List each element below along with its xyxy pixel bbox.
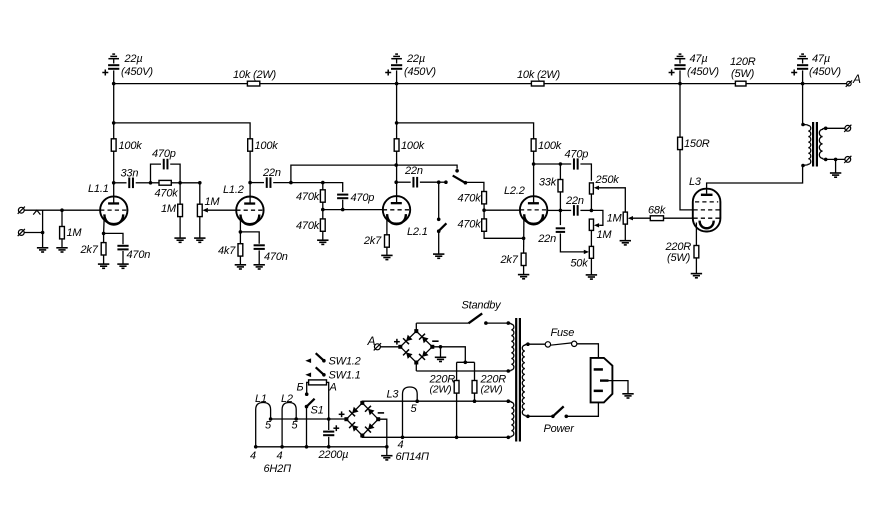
junction 220R tee <box>464 361 468 365</box>
ground 1M feedback <box>620 240 631 242</box>
pentode cathode arc <box>700 221 714 229</box>
capacitor 470p #2 <box>337 194 348 196</box>
svg-text:10k (2W): 10k (2W) <box>517 69 561 81</box>
resistor 4k7 L1.2 <box>238 244 243 256</box>
resistor 470k #2 divider <box>322 210 324 219</box>
junction 33n out <box>149 181 153 185</box>
resistor 100k L2.1 anode <box>394 139 399 151</box>
svg-text:100k: 100k <box>538 140 562 152</box>
junction bus minus <box>385 445 389 449</box>
svg-text:1M: 1M <box>161 203 177 215</box>
svg-text:1M: 1M <box>205 196 221 208</box>
wire power to primary <box>528 415 553 417</box>
junction secondary ground <box>834 158 838 162</box>
transformer PT heater winding <box>508 401 514 437</box>
wire screen sub-rail right <box>396 84 398 139</box>
svg-text:22n: 22n <box>537 233 556 245</box>
pot 50k wiper arrow <box>584 250 589 254</box>
svg-text:(2W): (2W) <box>481 384 503 396</box>
wire bridge1 bottom riser <box>415 363 417 372</box>
capacitor 47u 450V #1 electrolytic <box>675 58 686 60</box>
svg-text:100k: 100k <box>119 140 143 152</box>
switch SW1.1 arrow <box>305 373 311 378</box>
junction pot top <box>198 181 202 185</box>
ground divider <box>317 239 328 241</box>
junction L2.2 anode node <box>532 162 536 166</box>
svg-text:50k: 50k <box>570 258 588 270</box>
transformer PT HV winding <box>508 323 514 371</box>
junction L1.2 cathode <box>239 230 243 234</box>
junction L1.2 anode node <box>248 181 252 185</box>
wire grid right L2.2 <box>547 209 560 211</box>
capacitor 22n coupling L1.2 <box>250 182 264 184</box>
wire minus ground stem <box>440 347 442 357</box>
bridge rectifier B1 <box>400 331 432 362</box>
pot 1M feedback wiper <box>628 216 633 220</box>
svg-text:4: 4 <box>398 439 404 451</box>
svg-text:(5W): (5W) <box>667 252 691 264</box>
junction power pivot <box>551 415 555 419</box>
svg-text:(450V): (450V) <box>121 66 153 78</box>
wire HV bottom <box>416 370 508 372</box>
resistor 470k #1 divider <box>322 183 324 190</box>
capacitor 470p #3 feedback <box>534 163 572 165</box>
ground input <box>37 247 48 249</box>
ground 1M <box>174 237 185 239</box>
switch contact dot lower <box>444 180 448 184</box>
wire to switch contact <box>439 181 446 183</box>
switch SW1.2 arrow <box>305 358 311 363</box>
wire A to bridge1 <box>381 346 401 348</box>
bridge rectifier B2 <box>346 403 378 436</box>
svg-text:L1.1: L1.1 <box>88 183 109 195</box>
pentode grid2 dashes <box>694 209 720 211</box>
wire B+ rail right <box>544 83 735 85</box>
switch top contact <box>455 169 459 173</box>
capacitor 22n #3 <box>560 209 571 211</box>
ground mute <box>433 253 444 255</box>
svg-text:470p: 470p <box>152 148 176 160</box>
wire bridge2 minus to ground <box>378 419 387 447</box>
junction L3 pin4 <box>401 436 405 440</box>
contact S1 lower <box>305 405 309 409</box>
plus bridge1 <box>394 341 400 343</box>
wire S1 to resistor B <box>307 382 309 394</box>
potentiometer 1M mid <box>589 219 593 230</box>
junction subrail right <box>395 121 399 125</box>
tube L2.1 triode <box>383 196 410 223</box>
wire bridge1 minus <box>432 347 465 363</box>
svg-text:L3: L3 <box>387 389 400 401</box>
svg-text:(450V): (450V) <box>687 66 719 78</box>
plug prong middle <box>600 379 609 381</box>
wire plug bottom <box>566 402 598 416</box>
mains plug <box>591 358 613 403</box>
svg-text:250k: 250k <box>595 174 620 186</box>
svg-text:33k: 33k <box>539 177 557 189</box>
terminal A output <box>847 81 852 86</box>
pot 250k wiper <box>594 186 599 190</box>
wire input to grid L1.1 <box>24 209 100 211</box>
contact SW1.1 <box>322 373 326 377</box>
wire to volume pot <box>180 182 200 184</box>
svg-text:1M: 1M <box>607 213 623 225</box>
transformer OT secondary terminals <box>824 127 828 131</box>
transformer OT secondary winding <box>819 128 825 159</box>
resistor 470k #3 <box>482 192 487 204</box>
speaker jack bottom <box>845 157 851 163</box>
svg-text:470p: 470p <box>351 192 375 204</box>
wire L3 anode to OT <box>707 166 803 194</box>
wire fuse lead <box>528 343 545 345</box>
svg-text:Б: Б <box>297 382 304 394</box>
transformer PT core <box>515 318 517 442</box>
wire 4k7 ground <box>239 256 241 265</box>
wire B+ rail <box>114 83 248 85</box>
junction 470k out <box>178 181 182 185</box>
junction rail x113 <box>112 82 116 86</box>
svg-text:(450V): (450V) <box>809 66 841 78</box>
wire 2k7 to ground <box>103 255 105 264</box>
resistor 2k7 L1.1 <box>101 243 106 255</box>
heater coil L2 <box>282 403 296 447</box>
tube L1.2 triode <box>236 197 263 224</box>
junction L1.1 cathode <box>102 232 106 236</box>
wire 220R left down <box>456 393 458 437</box>
capacitor 22n coupling L2.1 <box>396 181 411 183</box>
svg-text:47µ: 47µ <box>812 53 830 65</box>
resistor 2k7 L2.2 <box>521 253 526 265</box>
wire minus bus stub <box>386 447 388 456</box>
transformer OT core <box>812 122 814 167</box>
ground L1.2 cathode <box>235 264 246 266</box>
svg-text:(2W): (2W) <box>430 384 452 396</box>
pot 1M mid wiper <box>591 210 603 225</box>
heater coil L3 <box>403 387 418 437</box>
transformer PT primary winding <box>522 344 528 416</box>
wire 220R right down <box>474 393 476 401</box>
junction rail x802 <box>801 82 805 86</box>
minus bridge2 <box>378 412 384 414</box>
capacitor 33n coupling <box>114 182 127 184</box>
svg-text:6Н2П: 6Н2П <box>264 463 292 475</box>
switch blade upper select <box>453 176 466 184</box>
junction 220R left bottom <box>455 436 459 440</box>
wire blade to divider2 <box>465 182 484 191</box>
potentiometer 1M feedback <box>623 212 627 224</box>
connector break mark <box>33 210 40 214</box>
junction minus gnd stem <box>439 345 443 349</box>
PT HV terminals <box>507 321 511 325</box>
ground L3 cathode <box>691 273 702 275</box>
svg-text:68k: 68k <box>648 205 666 217</box>
resistor 10k (2W) #2 <box>531 81 544 86</box>
ground 470n L1.2 <box>254 264 265 266</box>
svg-text:470n: 470n <box>127 249 151 261</box>
svg-text:470k: 470k <box>296 220 320 232</box>
PT primary terminals <box>526 342 530 346</box>
ground L2.1 cathode <box>381 254 392 256</box>
wire divider corner <box>323 183 343 193</box>
resistor 68k <box>650 216 663 221</box>
contact S1 upper <box>305 392 309 396</box>
junction L1.1 anode node <box>112 181 116 185</box>
transformer OT primary winding <box>803 125 811 166</box>
svg-text:470p: 470p <box>565 149 589 161</box>
svg-text:(450V): (450V) <box>404 66 436 78</box>
svg-text:4: 4 <box>250 450 256 462</box>
svg-text:4k7: 4k7 <box>218 245 236 257</box>
junction link at L2.1 anode <box>394 163 398 167</box>
junction L2.2 cathode <box>522 237 526 241</box>
svg-text:150R: 150R <box>684 138 710 150</box>
tube L1.1 triode <box>100 196 127 223</box>
resistor 100k L1.2 anode <box>248 139 253 151</box>
potentiometer 50k <box>589 246 593 258</box>
contact standby <box>484 321 488 325</box>
ground 50k <box>586 274 597 276</box>
capacitor 47u 450V #2 electrolytic <box>797 58 808 60</box>
svg-text:22n: 22n <box>262 167 281 179</box>
potentiometer 250k presence <box>589 183 593 194</box>
ground L1.1 cathode <box>98 263 109 265</box>
junction 22n L2.1 out <box>437 180 441 184</box>
junction divider top <box>321 181 325 185</box>
svg-text:10k (2W): 10k (2W) <box>233 69 277 81</box>
capacitor 470p bypass #1 <box>151 164 162 183</box>
resistor 10k (2W) #1 <box>247 81 259 86</box>
wire B+ rail to output <box>746 83 847 85</box>
capacitor 22u 450V #1 electrolytic <box>108 58 119 60</box>
junction plus bus cap <box>327 417 331 421</box>
svg-text:4: 4 <box>277 450 283 462</box>
pot 1M wiper arrow <box>202 208 208 213</box>
capacitor 470n L1.1 <box>104 233 123 244</box>
wire tee bar <box>457 361 475 363</box>
wire L3 cathode <box>695 223 697 246</box>
junction L2 pin5 <box>294 417 298 421</box>
svg-text:S1: S1 <box>311 405 324 417</box>
junction L1 pin5 <box>269 417 273 421</box>
capacitor 22n #4 <box>559 210 561 225</box>
minus bridge1 <box>432 340 438 342</box>
junction S1 bus <box>305 445 309 449</box>
wire standby to HV winding <box>486 322 508 324</box>
svg-text:470k: 470k <box>457 219 481 231</box>
pentode grid1 dashes <box>694 217 720 219</box>
wire standby to switch <box>416 322 468 324</box>
wire L2.2 cathode <box>523 217 525 253</box>
svg-text:470k: 470k <box>457 193 481 205</box>
fuse holder <box>545 342 550 347</box>
svg-text:2200µ: 2200µ <box>318 449 349 461</box>
wire secondary to ground <box>835 159 837 172</box>
plug prong top <box>594 368 603 371</box>
wire mute branch <box>438 182 440 219</box>
contact mute upper <box>437 218 441 222</box>
svg-text:L2: L2 <box>281 393 293 405</box>
ground 470n L1.1 <box>117 263 128 265</box>
svg-text:(5W): (5W) <box>731 68 755 80</box>
resistor 100k L1.1 anode <box>111 139 116 151</box>
svg-text:L3: L3 <box>689 176 702 188</box>
capacitor 22u 450V #2 electrolytic <box>391 58 402 60</box>
wire plug earth <box>609 381 629 394</box>
wire 22n to divider <box>291 182 323 184</box>
svg-text:L1: L1 <box>255 393 267 405</box>
svg-text:SW1.2: SW1.2 <box>329 356 361 368</box>
svg-text:Fuse: Fuse <box>551 327 575 339</box>
junction grid L2.2 <box>482 208 486 212</box>
input jack lower <box>18 230 24 236</box>
junction lower jack <box>41 231 45 235</box>
resistor 220R 2W right <box>472 381 477 394</box>
svg-text:A: A <box>852 72 861 86</box>
switch blade end dot <box>464 181 468 185</box>
resistor 100k L2.2 anode <box>531 139 536 151</box>
resistor 120R (5W) <box>735 81 746 86</box>
svg-text:2k7: 2k7 <box>80 244 99 256</box>
wire mute to ground <box>438 231 440 254</box>
junction L1 pin4 <box>254 445 258 449</box>
junction grid node L2.1 <box>321 208 325 212</box>
junction subrail left <box>112 121 116 125</box>
wire heater minus bus <box>256 446 387 448</box>
switch Power blade <box>553 406 564 416</box>
junction L2.1 anode 22n <box>394 180 398 184</box>
capacitor 470n L1.2 <box>240 232 259 244</box>
wire bridge2 top to heater winding <box>362 401 508 403</box>
wire OT secondary bottom <box>826 158 845 160</box>
wire lower jack to ground <box>24 232 42 234</box>
wire bridge1 top riser <box>415 323 417 331</box>
plug prong bottom <box>594 390 603 393</box>
capacitor 2200u electrolytic <box>328 419 330 430</box>
potentiometer 1M volume <box>199 183 201 204</box>
svg-text:Power: Power <box>544 423 576 435</box>
junction rail x396 <box>395 82 399 86</box>
speaker jack top <box>845 125 851 131</box>
contact SW1.2 <box>322 359 326 363</box>
wire L2.1 anode <box>396 151 398 202</box>
wire L1.2 anode <box>249 151 251 202</box>
input jack upper <box>18 207 24 213</box>
wire bridge2 bottom bus <box>362 435 508 437</box>
svg-text:6П14П: 6П14П <box>396 451 430 463</box>
wire plus bus <box>270 418 347 420</box>
resistor B-A link <box>309 380 327 385</box>
plus 2200u <box>333 427 339 429</box>
svg-text:33n: 33n <box>121 168 139 180</box>
switch SW1.1 blade <box>316 367 324 375</box>
junction 33k top <box>559 162 563 166</box>
junction L2 pin4 <box>280 445 284 449</box>
resistor 220R 5W cathode <box>694 246 699 258</box>
wire L1.1 cathode <box>103 217 106 243</box>
svg-text:120R: 120R <box>730 56 756 68</box>
tube L2.2 triode <box>520 196 547 223</box>
switch Standby blade <box>469 313 483 323</box>
svg-text:Standby: Standby <box>462 300 503 312</box>
ground 1M input <box>56 247 67 249</box>
resistor 470k #4 <box>482 219 487 231</box>
ground L2.2 cathode <box>518 274 529 276</box>
ground plug earth <box>622 393 633 395</box>
svg-text:1M: 1M <box>67 227 83 239</box>
resistor 1M to ground <box>179 183 181 204</box>
resistor 150R screen <box>679 84 681 138</box>
resistor 2k7 L2.1 <box>385 235 390 247</box>
junction L3 pin5 <box>415 399 419 403</box>
switch SW1.2 blade <box>316 353 324 361</box>
junction 470p bottom <box>341 208 345 212</box>
transformer OT primary terminals <box>801 123 805 127</box>
wire divider2 bottom to cathode <box>484 231 523 238</box>
wire divider to grid L2.1 <box>323 209 383 211</box>
wire B+ rail mid <box>260 83 532 85</box>
wire divider2 mid <box>483 204 485 219</box>
pentode plate bar <box>701 194 713 196</box>
svg-text:22µ: 22µ <box>406 53 425 65</box>
wire resistor A to plus bus <box>327 382 329 419</box>
wire L1.1 anode <box>113 151 115 202</box>
switch blade mute <box>439 223 447 231</box>
svg-text:100k: 100k <box>401 140 425 152</box>
junction 22n out <box>289 181 293 185</box>
wire screen sub-rail left <box>113 84 115 139</box>
svg-text:2k7: 2k7 <box>363 235 382 247</box>
contact power switch <box>565 415 569 419</box>
wire L2.1 cathode <box>386 217 388 235</box>
svg-text:А: А <box>329 382 337 394</box>
svg-text:L2.1: L2.1 <box>407 226 428 238</box>
svg-text:470k: 470k <box>296 191 320 203</box>
junction rail x680 <box>678 82 682 86</box>
plus bridge2 <box>339 413 345 415</box>
svg-text:22n: 22n <box>404 165 423 177</box>
svg-text:22µ: 22µ <box>124 53 143 65</box>
resistor 1M input grid <box>61 210 63 226</box>
heater coil L1 <box>256 403 271 447</box>
switch S1 blade <box>307 399 315 407</box>
ground OT secondary <box>830 172 841 174</box>
junction 1M input <box>60 208 64 212</box>
svg-text:L2.2: L2.2 <box>504 185 525 197</box>
svg-text:22n: 22n <box>565 195 584 207</box>
junction feedback node <box>590 209 594 213</box>
resistor 220R 2W left <box>454 381 459 394</box>
pentode grid3 dashes <box>695 201 718 203</box>
PT heater terminals <box>507 399 511 403</box>
wire L2.2 anode <box>533 151 535 202</box>
wire 2k7 L2.1 ground <box>386 247 388 255</box>
wire fuse to plug <box>577 344 599 357</box>
wire L1.2 cathode <box>239 217 241 244</box>
ground bridge1 minus <box>435 356 446 358</box>
wire 2k7 L2.2 ground <box>523 266 525 275</box>
svg-text:SW1.1: SW1.1 <box>329 370 361 382</box>
svg-text:47µ: 47µ <box>690 53 708 65</box>
svg-text:L1.2: L1.2 <box>223 184 244 196</box>
wire grid L2.2 <box>484 209 520 211</box>
junction 2200u bottom <box>327 445 331 449</box>
svg-text:470n: 470n <box>264 251 288 263</box>
svg-text:2k7: 2k7 <box>500 254 519 266</box>
contact mute lower <box>437 229 441 233</box>
junction 220R right bottom <box>473 399 477 403</box>
wire link to switch rail <box>291 165 457 183</box>
svg-text:1M: 1M <box>597 229 613 241</box>
